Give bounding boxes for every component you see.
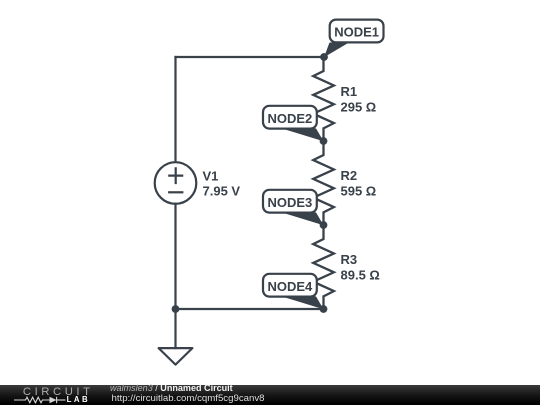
label R3 value xyxy=(341,252,380,283)
svg-text:R2: R2 xyxy=(341,168,358,183)
svg-text:R1: R1 xyxy=(341,84,358,99)
junction dot node 4 left (ground) xyxy=(172,305,180,313)
svg-text:LAB: LAB xyxy=(67,395,91,404)
svg-text:NODE4: NODE4 xyxy=(268,279,314,294)
svg-text:295 Ω: 295 Ω xyxy=(341,100,377,115)
node NODE1 callout xyxy=(324,20,384,58)
svg-text:89.5 Ω: 89.5 Ω xyxy=(341,268,380,283)
wire left rail upper xyxy=(174,57,176,162)
footer bar xyxy=(0,385,540,405)
label R2 value xyxy=(341,168,377,199)
wire top: node1 rail xyxy=(176,56,324,58)
wire left rail lower xyxy=(174,204,176,309)
svg-text:NODE1: NODE1 xyxy=(334,25,379,40)
junction dot node 2 xyxy=(320,137,328,145)
node NODE4 callout xyxy=(263,274,324,310)
svg-text:V1: V1 xyxy=(203,168,219,183)
svg-text:NODE2: NODE2 xyxy=(268,111,313,126)
node NODE2 callout xyxy=(263,106,324,142)
junction dot node 1 xyxy=(320,53,328,61)
voltage source V1 xyxy=(155,162,197,204)
svg-text:R3: R3 xyxy=(341,252,358,267)
label V1 value xyxy=(203,168,241,198)
svg-text:7.95 V: 7.95 V xyxy=(203,184,241,199)
resistor R2 xyxy=(313,141,334,225)
junction dot node 4 right xyxy=(320,305,328,313)
node NODE3 callout xyxy=(263,190,324,226)
svg-text:595 Ω: 595 Ω xyxy=(341,184,377,199)
footer circuit title xyxy=(110,384,233,393)
junction dot node 3 xyxy=(320,221,328,229)
label R1 value xyxy=(341,84,377,115)
ground xyxy=(159,309,193,365)
CircuitLab logo xyxy=(0,384,110,405)
resistor R1 xyxy=(313,57,334,141)
resistor R3 xyxy=(313,225,334,309)
svg-text:NODE3: NODE3 xyxy=(268,195,313,210)
wire bottom xyxy=(176,308,324,310)
